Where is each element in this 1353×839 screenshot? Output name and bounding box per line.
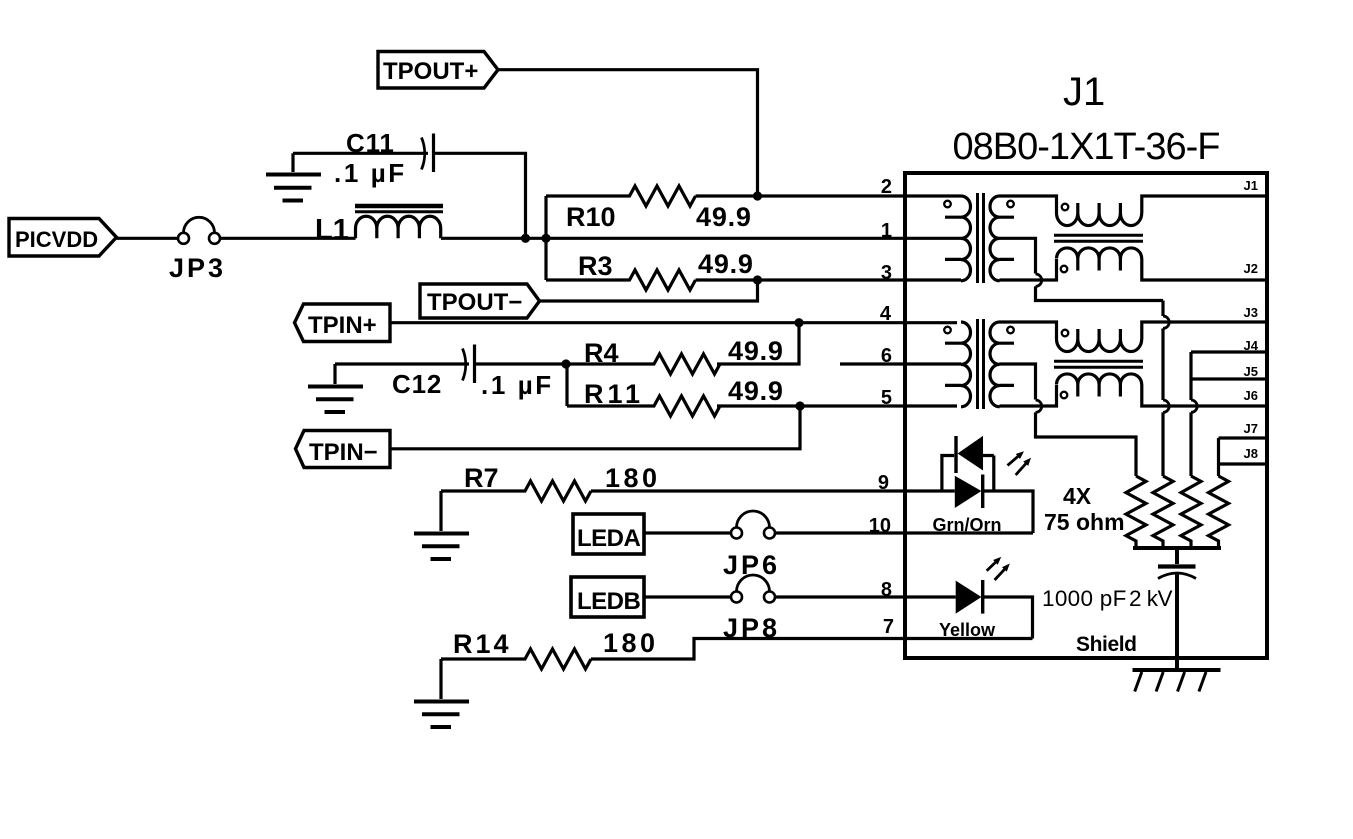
choke T2 winding B — [1057, 374, 1142, 398]
svg-text:1000 pF: 1000 pF — [1042, 586, 1127, 611]
wire J7/J8 pins — [1219, 438, 1268, 464]
wire TPOUT+ net — [498, 70, 758, 196]
ground (R14) — [414, 659, 469, 727]
capacitor C11 — [334, 128, 434, 188]
svg-text:.1 µF: .1 µF — [481, 370, 554, 400]
transformer T1 secondary winding — [990, 196, 1014, 281]
transformer T2 primary winding — [944, 322, 970, 407]
wire J4/J5 vertical with hop — [1189, 352, 1192, 476]
svg-text:08B0-1X1T-36-F: 08B0-1X1T-36-F — [953, 126, 1220, 168]
flag TPIN+ — [295, 304, 391, 342]
wire JP3 to L1 — [220, 237, 356, 240]
svg-text:J8: J8 — [1244, 446, 1258, 461]
svg-text:49.9: 49.9 — [698, 249, 754, 279]
node dot pin3 — [753, 275, 762, 284]
svg-text:Shield: Shield — [1076, 633, 1137, 656]
svg-text:10: 10 — [869, 515, 891, 537]
transformer T2 core — [978, 319, 984, 409]
svg-text:8: 8 — [881, 579, 892, 601]
svg-text:49.9: 49.9 — [696, 202, 752, 232]
node dot pin2 — [753, 191, 762, 200]
wire TPIN+ to pin 4 — [390, 321, 957, 324]
svg-text:R10: R10 — [566, 202, 616, 232]
wire R3 to pin 3 — [696, 278, 962, 281]
wire T1 secondary top to choke — [1000, 196, 1057, 213]
label box LEDB — [571, 577, 644, 617]
LED Yellow — [939, 580, 1033, 640]
connector J1 box — [905, 173, 1267, 658]
svg-text:R3: R3 — [578, 251, 613, 281]
svg-text:6: 6 — [881, 345, 892, 367]
wire R14 to pin 7 — [591, 639, 1033, 660]
svg-text:TPIN−: TPIN− — [309, 439, 378, 466]
svg-text:LEDA: LEDA — [577, 525, 641, 552]
svg-text:180: 180 — [605, 463, 661, 493]
ground (C11) — [266, 153, 321, 200]
wire R10 to pin 2 — [696, 194, 962, 197]
svg-text:180: 180 — [603, 628, 659, 658]
svg-text:J1: J1 — [1063, 70, 1105, 114]
wire T2 secondary top to choke — [1000, 322, 1057, 339]
ground (C12) — [308, 364, 363, 412]
svg-text:49.9: 49.9 — [728, 336, 784, 366]
resistor R4 — [567, 336, 784, 374]
jumper JP8 — [723, 575, 780, 643]
choke T1 winding A — [1057, 203, 1142, 226]
resistor R11 — [567, 376, 784, 416]
choke T1 core — [1054, 235, 1143, 241]
svg-text:4X: 4X — [1063, 483, 1092, 509]
flag TPOUT+ — [378, 52, 498, 89]
svg-text:J6: J6 — [1244, 388, 1258, 403]
inductor L1 — [315, 206, 443, 246]
wire T2 center tap with hop — [1000, 364, 1137, 476]
svg-text:C11: C11 — [346, 128, 395, 158]
shield ground — [1133, 670, 1221, 692]
wire LEDA to JP6 — [644, 531, 731, 534]
ground (R7) — [414, 491, 469, 559]
transformer T1 primary winding — [944, 196, 970, 281]
svg-text:9: 9 — [878, 472, 889, 494]
resistor R7 — [441, 463, 661, 501]
bicolor LED Grn/Orn — [905, 436, 1033, 535]
resistor R14 — [441, 628, 659, 669]
wire choke B right to J2 pin — [1142, 259, 1267, 281]
jumper JP6 — [723, 511, 780, 580]
svg-text:R11: R11 — [584, 379, 644, 409]
wire LEDB to JP8 — [644, 595, 731, 598]
wire T1 secondary bottom to choke — [1000, 259, 1057, 280]
resistor R3 — [546, 249, 754, 290]
wire C12 to R4/R11 bracket — [476, 362, 567, 365]
wire J4/J5 pins — [1191, 352, 1267, 379]
svg-text:75 ohm: 75 ohm — [1044, 509, 1125, 535]
wire bracket R10/R3 — [544, 196, 547, 280]
svg-text:JP3: JP3 — [169, 253, 226, 283]
capacitor C12 — [392, 345, 554, 401]
wire choke T2 B right to J6 pin — [1142, 385, 1267, 407]
wire ground to C12 — [335, 362, 469, 365]
svg-text:TPOUT−: TPOUT− — [427, 289, 522, 316]
LED light arrows (Yellow) — [987, 557, 1010, 580]
wire L1 to J1 pin 1 — [441, 237, 961, 240]
svg-text:J7: J7 — [1244, 421, 1258, 436]
svg-text:TPIN+: TPIN+ — [308, 312, 377, 339]
node dot pin5 — [795, 401, 804, 410]
svg-text:7: 7 — [883, 616, 894, 638]
choke T2 winding A — [1057, 329, 1142, 352]
flag TPOUT- — [420, 284, 540, 318]
wire R7 to pin 9 — [591, 489, 906, 492]
svg-text:R14: R14 — [453, 629, 512, 659]
wire choke A right to J1 pin — [1142, 196, 1267, 213]
wire ground to C11 — [293, 152, 428, 155]
svg-text:2: 2 — [881, 176, 892, 198]
wire JP8 to pin 8 — [775, 595, 956, 598]
choke T2 core — [1054, 361, 1143, 367]
resistor R10 — [546, 186, 752, 232]
svg-text:L1: L1 — [315, 214, 349, 246]
svg-text:2 kV: 2 kV — [1129, 586, 1173, 611]
svg-text:4: 4 — [880, 303, 892, 325]
wire choke T2 A right to J3 pin — [1142, 322, 1267, 339]
wire T2 secondary bottom to choke — [1000, 385, 1057, 406]
resistor array 4X 75 ohm — [1044, 476, 1229, 548]
wire TPOUT- net — [540, 280, 758, 301]
capacitor 1000 pF 2 kV — [1042, 548, 1196, 670]
svg-text:PICVDD: PICVDD — [15, 227, 98, 252]
wire PICVDD to JP3 — [117, 237, 179, 240]
node dot pin4 — [794, 318, 803, 327]
wire R4 to pin4 node — [717, 323, 799, 364]
wire TPIN- net — [390, 406, 800, 449]
svg-text:Yellow: Yellow — [939, 620, 996, 640]
flag TPIN- — [296, 431, 391, 468]
svg-text:J1: J1 — [1244, 178, 1258, 193]
transformer T2 secondary winding — [990, 322, 1014, 407]
wire C11 to pin1 net — [435, 153, 526, 238]
LED light arrows (Grn/Orn) — [1008, 451, 1032, 475]
jumper JP3 — [169, 217, 226, 283]
svg-text:R7: R7 — [464, 463, 499, 493]
choke T1 winding B — [1057, 248, 1142, 272]
svg-text:R4: R4 — [584, 338, 619, 368]
svg-text:C12: C12 — [392, 369, 442, 399]
svg-text:J5: J5 — [1244, 364, 1258, 379]
wire pin 6 stub — [840, 362, 961, 365]
svg-text:.1 µF: .1 µF — [334, 158, 407, 188]
svg-text:J2: J2 — [1244, 261, 1258, 276]
wire JP6 to pin 10 — [775, 531, 1033, 534]
power flag PICVDD — [9, 219, 117, 257]
label box LEDA — [573, 514, 644, 554]
svg-text:1: 1 — [881, 220, 892, 242]
node junction dots pin1 — [521, 234, 530, 243]
svg-text:J3: J3 — [1244, 305, 1258, 320]
wire T1 center tap with hop — [1000, 238, 1164, 300]
svg-text:5: 5 — [881, 387, 892, 409]
svg-text:LEDB: LEDB — [577, 588, 641, 615]
svg-text:J4: J4 — [1244, 338, 1259, 353]
wire T1 center tap vertical with hops — [1161, 301, 1164, 477]
svg-text:Grn/Orn: Grn/Orn — [932, 515, 1001, 535]
wire R11 to pin 5 — [717, 404, 957, 407]
transformer T1 core — [978, 193, 984, 283]
svg-text:49.9: 49.9 — [728, 376, 784, 406]
wire J7/J8 vertical — [1217, 438, 1220, 476]
svg-text:3: 3 — [881, 262, 892, 284]
svg-text:TPOUT+: TPOUT+ — [383, 58, 478, 85]
wire bracket R4/R11 — [565, 364, 568, 406]
